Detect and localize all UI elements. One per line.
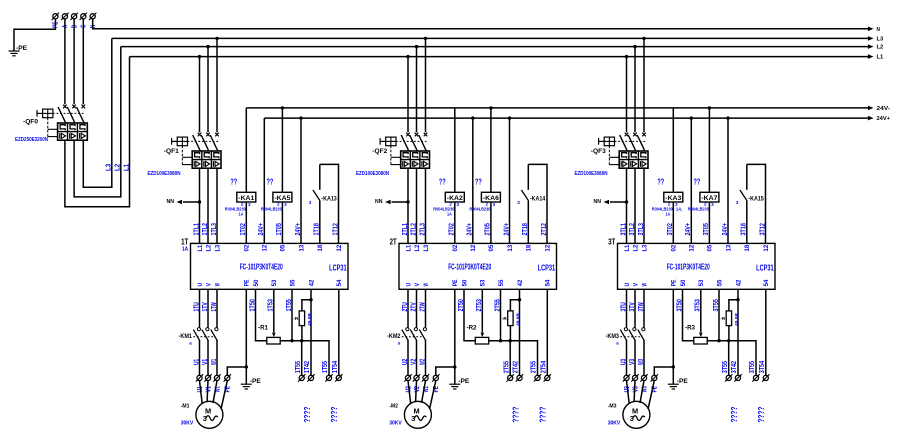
svg-text:-R: -R (502, 316, 508, 321)
wire PE pin to earth (245, 289, 247, 384)
svg-text:-QF2: -QF2 (372, 148, 388, 155)
svg-text:W: W (423, 283, 430, 286)
svg-text:2T53: 2T53 (476, 299, 483, 311)
svg-text:NN: NN (375, 199, 383, 205)
svg-text:02: 02 (244, 244, 251, 251)
svg-text:3T: 3T (608, 237, 615, 246)
relay coil -KA6 (490, 202, 492, 243)
wire 24V+ pin to bus (right) (727, 118, 729, 243)
svg-text:L2: L2 (414, 244, 421, 251)
svg-text:54: 54 (545, 279, 552, 286)
svg-text:????: ???? (329, 407, 339, 423)
svg-text:EZD100E3080N: EZD100E3080N (356, 171, 389, 177)
svg-text:02: 02 (671, 244, 678, 251)
-QF3 pole contact at x=644.0 (642, 133, 646, 137)
svg-text:42: 42 (735, 279, 742, 286)
wire stub with left arrow on 3TL1 (625, 200, 628, 203)
svg-text:????: ???? (756, 407, 766, 423)
section 1: bus taps to QF1 (198, 55, 201, 58)
motor terminals U3 V3 W3 PE (623, 374, 630, 381)
svg-text:05: 05 (488, 244, 495, 251)
-QF2 pole contact at x=425.5 (424, 133, 428, 137)
svg-text:EZD100E3080N: EZD100E3080N (575, 171, 608, 177)
svg-text:W2: W2 (419, 359, 426, 365)
svg-text:3TL2: 3TL2 (629, 223, 636, 235)
svg-text:3T54: 3T54 (759, 361, 766, 373)
-QF1 trip unit box (192, 151, 221, 168)
svg-text:FC-101P3K0T4E20: FC-101P3K0T4E20 (240, 261, 283, 271)
svg-text:-R2: -R2 (467, 324, 477, 331)
svg-text:1TV: 1TV (202, 302, 209, 312)
svg-text:2: 2 (449, 202, 452, 207)
-QF0 pole contact at x=64.9 (63, 105, 67, 109)
incoming supply terminals PE A B C N (52, 13, 59, 20)
svg-text:PE: PE (244, 280, 251, 287)
svg-text:3TU: 3TU (620, 302, 627, 311)
svg-text:FC-101P3K0T4E20: FC-101P3K0T4E20 (448, 261, 491, 271)
svg-text:????: ???? (538, 407, 548, 423)
svg-text:55: 55 (289, 279, 296, 286)
wire 1T42 (310, 289, 312, 375)
svg-text:2T55: 2T55 (494, 299, 501, 311)
svg-text:2: 2 (704, 202, 707, 207)
motor -M1 (196, 401, 223, 428)
svg-text:3T50: 3T50 (676, 299, 683, 311)
svg-text:3: 3 (284, 202, 287, 207)
svg-text:L1: L1 (877, 55, 884, 61)
common rail wire (489, 341, 538, 376)
wire 1T53 wiper (273, 289, 275, 332)
svg-text:-QF1: -QF1 (164, 148, 180, 155)
svg-text:3: 3 (493, 202, 496, 207)
svg-text:EZD100E3080N: EZD100E3080N (148, 171, 181, 177)
svg-text:3: 3 (736, 200, 739, 205)
svg-text:W1: W1 (211, 359, 218, 365)
wire L3 bus (112, 37, 870, 39)
wire N bus (93, 19, 870, 29)
svg-text:1T53: 1T53 (268, 299, 275, 311)
svg-text:13: 13 (507, 244, 514, 251)
wire stub with left arrow on 1TL1 (198, 200, 201, 203)
svg-text:1A: 1A (447, 212, 452, 218)
-QF3 trip unit box (619, 151, 648, 168)
svg-text:2T42: 2T42 (513, 361, 520, 373)
svg-text:V2: V2 (410, 359, 417, 365)
VFD drive U3 box (618, 243, 776, 289)
wires 3TU 3TV 3TW below drive (626, 289, 628, 327)
svg-text:12: 12 (470, 244, 477, 251)
svg-text:30KV: 30KV (181, 420, 194, 426)
svg-text:42: 42 (308, 279, 315, 286)
svg-text:3: 3 (711, 202, 714, 207)
svg-text:U: U (624, 283, 631, 287)
section 3: bus taps to QF3 (625, 55, 628, 58)
-QF1 pole contact at x=208.0 (206, 133, 210, 137)
svg-text:L3: L3 (641, 244, 648, 251)
svg-text:????: ???? (511, 407, 521, 423)
wire 2T42 (519, 289, 521, 375)
svg-text:1A,: 1A, (676, 206, 683, 212)
svg-text:05: 05 (707, 244, 714, 251)
svg-text:1A: 1A (182, 247, 188, 253)
svg-text:L3: L3 (877, 37, 884, 43)
wire 1T55 branch to terminal (301, 341, 303, 376)
svg-text:42: 42 (517, 279, 524, 286)
wires terminals A B C down to QF0 (64, 19, 66, 104)
svg-text:2TW: 2TW (419, 302, 426, 312)
signal terminals 3T55 3T42 (725, 374, 732, 381)
svg-text:1TW: 1TW (211, 302, 218, 312)
svg-text:R004LB230: R004LB230 (469, 206, 490, 212)
svg-text:24V-: 24V- (877, 106, 891, 112)
svg-text:-KA14: -KA14 (530, 195, 546, 202)
svg-text:50: 50 (461, 279, 468, 286)
-QF1 pole contact at x=199.5 (198, 133, 202, 137)
svg-text:13: 13 (298, 244, 305, 251)
wire PE pin to earth (454, 289, 456, 384)
svg-text:1T55: 1T55 (322, 361, 329, 373)
wire 2T55 branch to terminal (509, 341, 511, 376)
wire 2T53 wiper (481, 289, 483, 332)
svg-text:3: 3 (203, 414, 207, 423)
arrow L2 (868, 44, 874, 49)
svg-text:??: ?? (439, 178, 446, 187)
svg-text:55: 55 (716, 279, 723, 286)
wire 2T55 to common rail (500, 289, 502, 340)
svg-text:R004LB230: R004LB230 (688, 206, 709, 212)
svg-text:LCP31: LCP31 (329, 263, 347, 272)
svg-text:2T50: 2T50 (458, 299, 465, 311)
wires to motor -M3 (627, 381, 630, 404)
svg-text:54: 54 (336, 279, 343, 286)
svg-text:L2: L2 (877, 45, 884, 51)
common rail wire (280, 341, 329, 376)
circuit breaker -QF2 actuator (386, 137, 396, 146)
svg-text:L2: L2 (632, 244, 639, 251)
svg-text:-R3: -R3 (685, 324, 695, 331)
svg-text:3: 3 (630, 414, 634, 423)
svg-text:3: 3 (309, 200, 312, 205)
wire 2T50 to potentiometer (464, 289, 475, 340)
svg-text:1T50: 1T50 (249, 299, 256, 311)
svg-text:??: ?? (657, 178, 664, 187)
signal terminals 2T55 2T54 (534, 374, 541, 381)
section 2: bus taps to QF2 (406, 55, 409, 58)
svg-text:30KV: 30KV (389, 420, 402, 426)
svg-text:2TL3: 2TL3 (419, 223, 426, 235)
-QF0 pole contact at x=74.1 (72, 105, 76, 109)
svg-text:2TL2: 2TL2 (410, 223, 417, 235)
wires QF3 outputs 3TL1 3TL2 3TL3 to drive (626, 168, 628, 243)
wire QF0 pole2 jog to L2 riser (74, 47, 121, 197)
svg-text:R004LB230: R004LB230 (652, 206, 673, 212)
svg-text:1TL2: 1TL2 (202, 223, 209, 235)
relay contact -KA14 (527, 201, 529, 244)
-QF3 pole contact at x=626.5 (625, 133, 629, 137)
wire 24V+ pin to bus (left) (690, 118, 692, 243)
relay coil -KA5 (281, 202, 283, 243)
svg-text:2T55: 2T55 (503, 361, 510, 373)
earth symbol -PE (668, 384, 679, 389)
svg-text:W: W (641, 283, 648, 286)
wires QF1 outputs 1TL1 1TL2 1TL3 to drive (199, 168, 201, 243)
wire 24V+ pin to bus (right) (509, 118, 511, 243)
svg-text:50: 50 (253, 279, 260, 286)
potentiometer -R2 (475, 337, 488, 344)
svg-text:2TV: 2TV (410, 302, 417, 312)
svg-text:3T42: 3T42 (731, 361, 738, 373)
svg-text:1TL1: 1TL1 (193, 223, 200, 235)
svg-text:??: ?? (694, 178, 701, 187)
svg-text:FC-101P3K0T4E20: FC-101P3K0T4E20 (667, 261, 710, 271)
svg-text:????: ???? (302, 407, 312, 423)
motor -M3 (623, 401, 650, 428)
-QF2 pole contact at x=416.5 (415, 133, 419, 137)
signal terminals 3T55 3T54 (752, 374, 759, 381)
wire 3T55 to common rail (718, 289, 720, 340)
wire QF0 pole3 jog to L3 riser (83, 38, 112, 187)
contactor -KM1 contacts (197, 328, 200, 331)
svg-text:3: 3 (457, 202, 460, 207)
svg-text:30KV: 30KV (608, 420, 621, 426)
svg-text:NN: NN (594, 199, 602, 205)
wire stub with left arrow on 2TL1 (406, 200, 409, 203)
svg-text:LCP31: LCP31 (538, 263, 556, 272)
svg-text:53: 53 (480, 279, 487, 286)
svg-text:U1: U1 (193, 359, 200, 365)
svg-text:-KA13: -KA13 (321, 195, 337, 202)
svg-text:R004LB230: R004LB230 (261, 206, 282, 212)
contactor -KM2 contacts (406, 328, 409, 331)
svg-text:18: 18 (317, 244, 324, 251)
svg-text:-M2: -M2 (389, 403, 398, 409)
earth symbol -PE (top left) (9, 51, 20, 56)
wire 1T50 to potentiometer (256, 289, 267, 340)
svg-text:12: 12 (262, 244, 269, 251)
svg-text:????: ???? (729, 407, 739, 423)
svg-text:50: 50 (680, 279, 687, 286)
arrow N (868, 27, 874, 32)
relay coil -KA3 (672, 202, 674, 243)
svg-text:24V+: 24V+ (877, 116, 891, 122)
svg-text:02: 02 (452, 244, 459, 251)
svg-text:3: 3 (675, 202, 678, 207)
svg-text:V3: V3 (629, 359, 636, 365)
arrow 24V+ (868, 116, 874, 121)
svg-text:R004LB230: R004LB230 (433, 206, 454, 212)
wire PE pin to earth (672, 289, 674, 384)
wire 3T42 (737, 289, 739, 375)
-QF0 trip unit box (58, 123, 88, 140)
svg-text:2: 2 (277, 202, 280, 207)
arrow L3 (868, 36, 874, 41)
svg-text:-PE: -PE (458, 378, 469, 385)
svg-text:3T55: 3T55 (722, 361, 729, 373)
-QF0 mechanical coupling (dashed) (53, 112, 85, 114)
svg-text:V3: V3 (632, 386, 639, 392)
-QF0 pole contact at x=83.3 (82, 105, 86, 109)
wire 3T54 (765, 289, 767, 375)
earth symbol -PE (449, 384, 460, 389)
svg-text:??: ?? (267, 178, 274, 187)
svg-text:U2: U2 (402, 359, 409, 365)
svg-text:18: 18 (744, 244, 751, 251)
svg-text:-M3: -M3 (608, 403, 617, 409)
svg-text:V1: V1 (205, 386, 212, 392)
svg-text:3TL3: 3TL3 (638, 223, 645, 235)
svg-text:1T54: 1T54 (332, 361, 339, 373)
svg-text:1TL3: 1TL3 (211, 223, 218, 235)
-QF2 trip unit box (401, 151, 430, 168)
svg-text:L3: L3 (423, 244, 430, 251)
svg-text:PE: PE (452, 280, 459, 287)
-QF1 mechanical coupling (dashed) (188, 140, 219, 142)
wire bridge 3T12 (747, 164, 766, 243)
wire 24V+ pin to bus (right) (300, 118, 302, 243)
relay coil -KA1 (245, 202, 247, 243)
motor terminals U1 V1 W1 PE (196, 374, 203, 381)
svg-text:12: 12 (336, 244, 343, 251)
svg-text:2T: 2T (390, 237, 397, 246)
svg-text:2: 2 (486, 202, 489, 207)
wire 24V- bus (246, 107, 869, 109)
svg-text:L1: L1 (624, 244, 631, 251)
-QF2 pole contact at x=408.0 (406, 133, 410, 137)
svg-text:3TV: 3TV (629, 302, 636, 312)
svg-text:1T55: 1T55 (295, 361, 302, 373)
svg-text:W: W (214, 283, 221, 286)
signal terminals 2T55 2T42 (507, 374, 514, 381)
relay contact -KA15 (746, 201, 748, 244)
potentiometer -R3 (694, 337, 707, 344)
svg-text:2TU: 2TU (402, 302, 409, 311)
svg-text:2T55: 2T55 (531, 361, 538, 373)
resistor -R5 (510, 300, 519, 311)
svg-text:18: 18 (526, 244, 533, 251)
svg-text:L2: L2 (205, 244, 212, 251)
svg-text:1A: 1A (239, 212, 244, 218)
svg-text:1T: 1T (181, 237, 188, 246)
-QF3 mechanical coupling (dashed) (615, 140, 646, 142)
svg-text:L3: L3 (214, 244, 221, 251)
svg-text:2T54: 2T54 (541, 361, 548, 373)
wire PE to motor terminal (227, 367, 246, 375)
svg-text:2: 2 (241, 202, 244, 207)
wire PE terminal to earth (14, 19, 55, 51)
svg-text:2: 2 (668, 202, 671, 207)
svg-text:-QF3: -QF3 (591, 148, 607, 155)
svg-text:13: 13 (725, 244, 732, 251)
wires to motor -M2 (408, 381, 411, 404)
svg-text:U3: U3 (620, 359, 627, 365)
arrow L1 (868, 54, 874, 59)
wire QF0 pole1 jog to L1 riser (65, 57, 130, 207)
wire L2 bus (121, 46, 870, 48)
svg-text:53: 53 (271, 279, 278, 286)
svg-text:3: 3 (411, 414, 415, 423)
-QF1 pole contact at x=217.0 (215, 133, 219, 137)
VFD drive U2 box (399, 243, 557, 289)
earth symbol -PE (241, 384, 252, 389)
svg-text:-QF0: -QF0 (23, 119, 39, 126)
relay coil -KA7 (708, 202, 710, 243)
svg-text:1T42: 1T42 (304, 361, 311, 373)
svg-text:R004LB230: R004LB230 (225, 206, 246, 212)
svg-text:N: N (877, 27, 881, 33)
wires 2TU 2TV 2TW below drive (407, 289, 409, 327)
svg-text:??: ?? (230, 178, 237, 187)
svg-text:U: U (197, 283, 204, 287)
svg-text:3T55: 3T55 (713, 299, 720, 311)
svg-text:12: 12 (544, 244, 551, 251)
svg-text:LCP31: LCP31 (756, 263, 774, 272)
svg-text:3: 3 (517, 200, 520, 205)
svg-text:V2: V2 (414, 386, 421, 392)
motor terminals U2 V2 W2 PE (404, 374, 411, 381)
svg-text:12: 12 (763, 244, 770, 251)
svg-text:EZD250E3200N: EZD250E3200N (15, 137, 48, 143)
svg-text:V1: V1 (202, 359, 209, 365)
resistor -R4 (302, 300, 311, 311)
circuit breaker -QF3 actuator (604, 137, 614, 146)
svg-text:L1: L1 (405, 244, 412, 251)
wire 1T55 to common rail (291, 289, 293, 340)
contactor -KM3 contacts (624, 328, 627, 331)
svg-text:12: 12 (689, 244, 696, 251)
signal terminals 1T55 1T42 (298, 374, 305, 381)
svg-text:-PE: -PE (677, 378, 688, 385)
relay coil -KA2 (454, 202, 456, 243)
svg-text:-R1: -R1 (258, 324, 268, 331)
wire bridge 1T12 (320, 164, 339, 243)
svg-text:-PE: -PE (250, 378, 261, 385)
VFD drive U1 box (191, 243, 349, 289)
wires QF2 outputs 2TL1 2TL2 2TL3 to drive (407, 168, 409, 243)
resistor -R6 (729, 300, 738, 311)
svg-text:49.9R: 49.9R (515, 312, 520, 326)
relay contact -KA13 (319, 201, 321, 244)
wire 24V+ pin to bus (left) (472, 118, 474, 243)
svg-text:1T55: 1T55 (286, 299, 293, 311)
svg-text:2TL1: 2TL1 (402, 223, 409, 235)
-QF2 mechanical coupling (dashed) (396, 140, 427, 142)
wire PE to motor terminal (436, 367, 455, 375)
motor -M2 (404, 401, 431, 428)
arrow 24V- (868, 106, 874, 111)
svg-text:54: 54 (763, 279, 770, 286)
wire 3T53 wiper (700, 289, 702, 332)
svg-text:05: 05 (280, 244, 287, 251)
svg-text:L2: L2 (114, 164, 121, 171)
svg-text:-KM1: -KM1 (179, 333, 193, 340)
wire 24V+ pin to bus (left) (263, 118, 265, 243)
svg-text:55: 55 (498, 279, 505, 286)
svg-text:??: ?? (475, 178, 482, 187)
svg-text:1A: 1A (666, 212, 671, 218)
wire L1 bus (130, 56, 870, 58)
svg-text:3TL1: 3TL1 (620, 223, 627, 235)
svg-text:L3: L3 (105, 164, 112, 171)
svg-text:-R: -R (293, 316, 299, 321)
wire 24V+ bus (264, 117, 869, 119)
wires 1TU 1TV 1TW below drive (199, 289, 201, 327)
svg-text:PE: PE (671, 280, 678, 287)
svg-text:L1: L1 (197, 244, 204, 251)
svg-text:3: 3 (248, 202, 251, 207)
svg-text:53: 53 (698, 279, 705, 286)
svg-text:3TW: 3TW (638, 302, 645, 312)
svg-text:NN: NN (167, 199, 175, 205)
